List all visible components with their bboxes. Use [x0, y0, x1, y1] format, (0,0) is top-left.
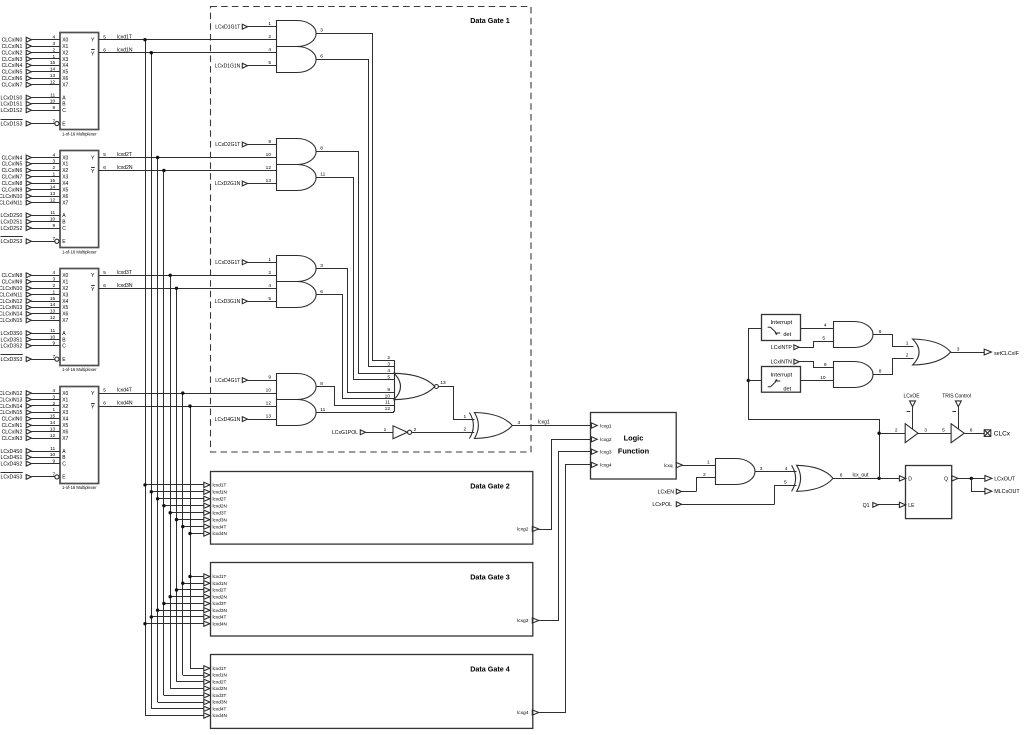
svg-text:9: 9 — [53, 105, 56, 111]
node lcxd2T junction at Data Gate 3 — [175, 588, 178, 591]
svg-text:det: det — [783, 332, 791, 338]
svg-text:lcxd4N: lcxd4N — [213, 621, 227, 626]
node lcxd1T junction at Data Gate 3 — [188, 575, 191, 578]
wire to set CLCxIF — [951, 352, 985, 354]
svg-text:X2: X2 — [62, 168, 68, 174]
wire lcxd1T from U1 Y to AND gate — [99, 39, 276, 41]
svg-text:CLCxIN2: CLCxIN2 — [2, 50, 23, 56]
node lcxd1N tap — [150, 51, 153, 54]
svg-text:X4: X4 — [62, 299, 68, 305]
AND gate (output enable) — [716, 459, 756, 485]
svg-text:6: 6 — [320, 54, 323, 60]
node lcxd3T tap — [169, 274, 172, 277]
svg-text:LCxD3S0: LCxD3S0 — [0, 331, 22, 337]
wire lcxd2T into Data Gate 4 — [177, 681, 204, 683]
svg-text:5: 5 — [784, 480, 787, 486]
svg-text:14: 14 — [50, 302, 56, 308]
svg-text:4: 4 — [268, 283, 271, 289]
svg-text:3: 3 — [320, 28, 323, 34]
wire AND pair 3 complement output to OR input — [316, 295, 395, 399]
svg-text:X4: X4 — [62, 417, 68, 423]
svg-text:4: 4 — [387, 368, 390, 374]
wire TRIS buffer to CLCx pin — [964, 433, 984, 435]
svg-text:CLCxIN15: CLCxIN15 — [0, 318, 22, 324]
wire lcxd4N from U4 Ybar to AND gate — [99, 406, 276, 408]
node lcxd1N junction at Data Gate 2 — [150, 490, 153, 493]
Interrupt det block (falling edge) — [762, 367, 801, 393]
svg-text:Interrupt: Interrupt — [771, 372, 793, 378]
node lcxd1T junction at Data Gate 2 — [143, 483, 146, 486]
svg-text:CLCxIN5: CLCxIN5 — [2, 70, 23, 76]
wire lcxg1 to Logic Function — [512, 425, 590, 427]
wire falling Interrupt det to AND — [801, 380, 834, 382]
svg-text:Y: Y — [91, 391, 95, 397]
svg-text:4: 4 — [824, 322, 827, 328]
svg-text:12: 12 — [266, 401, 272, 407]
svg-text:2: 2 — [906, 352, 909, 358]
svg-text:11: 11 — [50, 210, 55, 216]
svg-text:CLCxIN10: CLCxIN10 — [0, 286, 22, 292]
svg-text:lcxd3N: lcxd3N — [213, 517, 227, 522]
svg-text:lcxd3N: lcxd3N — [117, 283, 133, 289]
svg-text:10: 10 — [385, 393, 391, 399]
svg-text:lcxg4: lcxg4 — [517, 710, 529, 716]
svg-text:lcxd1T: lcxd1T — [213, 483, 227, 488]
wire lcxd4T into Data Gate 3 — [151, 616, 204, 618]
svg-text:8: 8 — [320, 145, 323, 151]
svg-text:4: 4 — [53, 388, 56, 394]
svg-text:11: 11 — [50, 446, 55, 452]
svg-text:11: 11 — [385, 400, 390, 406]
svg-text:Y: Y — [91, 155, 95, 161]
wire lcxd1N into Data Gate 4 — [183, 675, 204, 677]
svg-text:6: 6 — [103, 401, 106, 407]
svg-text:lcxd3T: lcxd3T — [213, 601, 227, 606]
svg-text:13: 13 — [50, 191, 56, 197]
wire rising AND to OR — [874, 335, 914, 347]
svg-text:LCxD1S0: LCxD1S0 — [0, 95, 22, 101]
svg-text:4: 4 — [268, 47, 271, 53]
svg-text:13: 13 — [440, 380, 446, 386]
svg-text:lcxg3: lcxg3 — [517, 618, 529, 624]
node buffer tap — [877, 432, 880, 435]
svg-text:1: 1 — [53, 289, 56, 295]
wire lcx_out to output buffer — [879, 433, 905, 435]
svg-text:lcxg3: lcxg3 — [600, 450, 612, 456]
multiplexer U2 (1-of-16 Multiplexer) — [0, 151, 106, 255]
svg-text:X3: X3 — [62, 292, 68, 298]
buffer (TRIS Control) — [951, 424, 964, 443]
svg-text:CLCxIN13: CLCxIN13 — [0, 305, 22, 311]
svg-text:X0: X0 — [62, 155, 68, 161]
svg-text:lcxd1T: lcxd1T — [117, 34, 132, 40]
node lcxd4N junction at Data Gate 3 — [143, 622, 146, 625]
wire lcxd2T vertical bus — [157, 158, 159, 703]
svg-text:6: 6 — [970, 427, 973, 433]
svg-text:10: 10 — [266, 152, 272, 158]
svg-text:3: 3 — [924, 427, 927, 433]
svg-text:9: 9 — [53, 458, 56, 464]
svg-text:lcxd1T: lcxd1T — [213, 574, 227, 579]
svg-text:LCxD3S3: LCxD3S3 — [0, 357, 22, 363]
svg-text:X2: X2 — [62, 286, 68, 292]
svg-text:2: 2 — [53, 47, 56, 53]
svg-text:CLCxIN10: CLCxIN10 — [0, 194, 22, 200]
svg-text:lcxd3T: lcxd3T — [117, 270, 132, 276]
wire Q to MLCxOUT — [972, 479, 985, 492]
svg-text:X7: X7 — [62, 318, 68, 324]
svg-text:LCxD4G1T: LCxD4G1T — [215, 378, 240, 384]
svg-text:lcxd4T: lcxd4T — [117, 388, 132, 394]
svg-text:3: 3 — [387, 362, 390, 368]
svg-text:C: C — [62, 108, 66, 114]
svg-text:CLCxIN14: CLCxIN14 — [0, 312, 22, 318]
svg-text:CLCxIN11: CLCxIN11 — [0, 292, 22, 298]
wire AND pair 4 complement output to OR input — [316, 412, 395, 413]
Interrupt det block (rising edge) — [762, 315, 801, 341]
multiplexer U1 (1-of-16 Multiplexer) — [0, 33, 106, 137]
svg-text:1: 1 — [464, 414, 467, 420]
svg-text:Y: Y — [91, 38, 95, 44]
svg-text:Data Gate 4: Data Gate 4 — [470, 665, 510, 674]
wire lcxd2N from U2 Ybar to AND gate — [99, 170, 276, 172]
svg-text:CLCxIN9: CLCxIN9 — [2, 280, 23, 286]
svg-text:LCxD3S1: LCxD3S1 — [0, 337, 22, 343]
inverter on LCxG1POL — [393, 426, 407, 439]
svg-text:lcxg4: lcxg4 — [600, 463, 612, 469]
svg-text:lcxd3N: lcxd3N — [213, 700, 227, 705]
svg-text:1: 1 — [384, 427, 387, 433]
svg-text:5: 5 — [822, 335, 825, 341]
svg-text:X3: X3 — [62, 57, 68, 63]
svg-text:LCxD3S2: LCxD3S2 — [0, 344, 22, 350]
svg-text:CLCxIN0: CLCxIN0 — [2, 417, 23, 423]
svg-text:CLCxIN0: CLCxIN0 — [2, 38, 23, 44]
Data Gate 3 box — [204, 563, 539, 637]
node lcxd3N tap — [175, 287, 178, 290]
node lcxd4T tap — [181, 391, 184, 394]
wire lcxd4T vertical bus — [182, 393, 184, 675]
wire lcxd3N into Data Gate 4 — [158, 702, 204, 704]
wire lcxd3N vertical bus — [176, 288, 178, 681]
svg-text:13: 13 — [50, 73, 56, 79]
svg-text:lcxd2T: lcxd2T — [213, 497, 227, 502]
svg-text:LCxD2S3: LCxD2S3 — [0, 239, 22, 245]
wire lcxd1T into Data Gate 2 — [145, 484, 204, 486]
svg-text:CLCxIN2: CLCxIN2 — [2, 430, 23, 436]
svg-text:Data Gate 1: Data Gate 1 — [470, 16, 510, 25]
svg-text:Y: Y — [91, 51, 95, 57]
svg-text:X7: X7 — [62, 436, 68, 442]
svg-text:13: 13 — [266, 414, 272, 420]
node lcxd2T junction at Data Gate 2 — [156, 497, 159, 500]
svg-text:LCxOUT: LCxOUT — [994, 476, 1016, 482]
wire lcxd4N vertical bus — [190, 406, 192, 668]
svg-text:CLCxIN3: CLCxIN3 — [2, 57, 23, 63]
Data Gate 1 dashed boundary box — [211, 7, 532, 453]
svg-text:11: 11 — [50, 92, 55, 98]
svg-text:MLCxOUT: MLCxOUT — [994, 489, 1020, 495]
svg-text:X1: X1 — [62, 397, 68, 403]
wire lcxq to AND gate — [683, 465, 716, 467]
svg-text:2: 2 — [53, 165, 56, 171]
svg-text:LCxD1G1T: LCxD1G1T — [215, 24, 240, 30]
wire lcxd1N from U1 Ybar to AND gate — [99, 52, 276, 54]
svg-text:LCxD2G1N: LCxD2G1N — [215, 181, 241, 187]
svg-text:lcxg2: lcxg2 — [517, 527, 529, 533]
node lcxd2T tap — [156, 156, 159, 159]
svg-text:1-of-16 Multiplexer: 1-of-16 Multiplexer — [62, 132, 97, 137]
svg-text:Logic: Logic — [624, 434, 644, 443]
node lcxd2N junction at Data Gate 2 — [162, 504, 165, 507]
svg-text:CLCxIN12: CLCxIN12 — [0, 391, 22, 397]
wire lcxd3N into Data Gate 3 — [158, 610, 204, 612]
svg-text:X5: X5 — [62, 70, 68, 76]
wire lcxd3T vertical bus — [170, 275, 172, 688]
svg-text:CLCxIN14: CLCxIN14 — [0, 404, 22, 410]
node lcxd3T junction at Data Gate 2 — [169, 511, 172, 514]
wire LCxEN to AND gate — [697, 478, 716, 492]
wire LCxPOL to XOR — [775, 486, 797, 505]
svg-text:det: det — [783, 386, 791, 392]
wire AND pair 2 true output to OR input — [316, 152, 395, 374]
svg-text:CLCxIN1: CLCxIN1 — [2, 423, 23, 429]
svg-text:X1: X1 — [62, 44, 68, 50]
svg-text:12: 12 — [266, 165, 272, 171]
svg-text:lcxd2N: lcxd2N — [117, 165, 133, 171]
wire lcxd2N into Data Gate 2 — [164, 505, 204, 507]
wire lcxg4 to Logic Function — [539, 465, 591, 713]
buffer (LCxOE) — [905, 424, 918, 443]
wire lcxd4T into Data Gate 4 — [151, 708, 204, 710]
wire AND pair 2 complement output to OR input — [316, 178, 395, 380]
svg-text:4: 4 — [785, 466, 788, 472]
wire lcxd2N into Data Gate 3 — [170, 596, 204, 598]
svg-text:X3: X3 — [62, 175, 68, 181]
svg-text:3: 3 — [53, 159, 56, 165]
svg-text:LCxG1POL: LCxG1POL — [332, 430, 358, 436]
svg-text:LCxD3G1N: LCxD3G1N — [215, 299, 241, 305]
svg-text:12: 12 — [50, 80, 56, 86]
Logic Function block — [591, 413, 683, 480]
svg-text:X0: X0 — [62, 273, 68, 279]
wire to falling Interrupt det — [748, 380, 762, 382]
svg-text:D: D — [908, 476, 912, 482]
svg-text:2: 2 — [414, 427, 417, 433]
wire lcxd1T vertical bus — [145, 40, 147, 716]
svg-text:1-of-16 Multiplexer: 1-of-16 Multiplexer — [62, 485, 97, 490]
svg-text:lcxd4N: lcxd4N — [213, 531, 227, 536]
svg-text:5: 5 — [387, 374, 390, 380]
svg-text:5: 5 — [942, 427, 945, 433]
svg-text:C: C — [62, 461, 66, 467]
node lcxd4T junction at Data Gate 2 — [181, 525, 184, 528]
svg-text:1-of-16 Multiplexer: 1-of-16 Multiplexer — [62, 249, 97, 254]
wire lcxd4T into Data Gate 2 — [183, 526, 204, 528]
wire lcxd4T from U4 Y to AND gate — [99, 393, 276, 395]
AND gate pair 1 (data gating for lcxd1) — [268, 21, 323, 73]
AND gate pair 4 (data gating for lcxd4) — [266, 374, 326, 426]
wire lcx_out feedback to interrupt detectors — [749, 329, 880, 479]
svg-text:5: 5 — [103, 388, 106, 394]
svg-text:CLCxIN6: CLCxIN6 — [2, 76, 23, 82]
wire lcxd1T into Data Gate 4 — [190, 668, 204, 670]
svg-text:CLCx: CLCx — [994, 431, 1011, 438]
svg-text:X1: X1 — [62, 280, 68, 286]
svg-text:LE: LE — [908, 503, 915, 509]
svg-text:LCxD4S3: LCxD4S3 — [0, 475, 22, 481]
svg-text:Function: Function — [618, 447, 650, 456]
wire lcxd2N into Data Gate 4 — [170, 688, 204, 690]
wire lcxd2T into Data Gate 2 — [158, 498, 204, 500]
svg-text:12: 12 — [50, 197, 56, 203]
wire falling AND to OR — [874, 359, 914, 375]
svg-text:CLCxIN4: CLCxIN4 — [2, 63, 23, 69]
node lcxd4N tap — [188, 404, 191, 407]
wire buffer to TRIS buffer — [918, 433, 951, 435]
wire lcxd1N into Data Gate 2 — [151, 491, 204, 493]
svg-text:X2: X2 — [62, 50, 68, 56]
node lcxd2N junction at Data Gate 3 — [169, 595, 172, 598]
svg-text:13: 13 — [50, 309, 56, 315]
wire AND output to XOR — [755, 471, 796, 473]
node lcxd1N junction at Data Gate 3 — [181, 582, 184, 585]
svg-text:14: 14 — [50, 67, 56, 73]
svg-text:CLCxIN6: CLCxIN6 — [2, 168, 23, 174]
svg-text:lcxd2N: lcxd2N — [213, 686, 227, 691]
svg-text:10: 10 — [266, 388, 272, 394]
svg-text:LCxD2S2: LCxD2S2 — [0, 226, 22, 232]
svg-text:1: 1 — [53, 172, 56, 178]
svg-text:lcxd2N: lcxd2N — [213, 594, 227, 599]
svg-text:LCxD2S1: LCxD2S1 — [0, 220, 22, 226]
wire lcxg3 to Logic Function — [539, 452, 591, 621]
svg-text:10: 10 — [50, 99, 56, 105]
svg-text:X3: X3 — [62, 410, 68, 416]
svg-text:X2: X2 — [62, 404, 68, 410]
svg-text:X5: X5 — [62, 423, 68, 429]
svg-text:X0: X0 — [62, 391, 68, 397]
wire AND pair 3 true output to OR input — [316, 269, 395, 393]
svg-text:LCxD1G1N: LCxD1G1N — [215, 63, 241, 69]
svg-text:2: 2 — [895, 427, 898, 433]
svg-text:CLCxIN11: CLCxIN11 — [0, 200, 22, 206]
svg-text:lcxd2N: lcxd2N — [213, 503, 227, 508]
svg-text:setCLCxIF: setCLCxIF — [994, 351, 1020, 357]
svg-text:1: 1 — [53, 54, 56, 60]
svg-text:8: 8 — [879, 368, 882, 374]
svg-text:1: 1 — [268, 257, 271, 263]
svg-text:9: 9 — [53, 223, 56, 229]
OR gate (8-input NOR) in Data Gate 1 — [385, 355, 446, 412]
wire lcxg2 to Logic Function — [539, 440, 591, 530]
svg-text:3: 3 — [53, 394, 56, 400]
svg-text:Y: Y — [91, 169, 95, 175]
svg-text:10: 10 — [820, 375, 826, 381]
svg-text:9: 9 — [53, 341, 56, 347]
svg-text:CLCxIN12: CLCxIN12 — [0, 299, 22, 305]
svg-text:lcxd3N: lcxd3N — [213, 608, 227, 613]
svg-text:Interrupt: Interrupt — [771, 320, 793, 326]
svg-text:lcxd4T: lcxd4T — [213, 524, 227, 529]
svg-text:X6: X6 — [62, 194, 68, 200]
wire lcxd3T into Data Gate 2 — [170, 512, 204, 514]
wire lcxd4N into Data Gate 2 — [190, 533, 204, 535]
svg-text:CLCxIN9: CLCxIN9 — [2, 188, 23, 194]
svg-text:lcxd2T: lcxd2T — [213, 588, 227, 593]
svg-text:lcxd4T: lcxd4T — [213, 707, 227, 712]
svg-text:X4: X4 — [62, 181, 68, 187]
output MLCxOUT — [985, 488, 992, 494]
svg-text:lcxd4N: lcxd4N — [213, 713, 227, 718]
svg-text:15: 15 — [50, 60, 56, 66]
svg-text:CLCxIN15: CLCxIN15 — [0, 410, 22, 416]
wire inverter output to XOR — [412, 432, 475, 434]
node lcxd3T junction at Data Gate 3 — [162, 602, 165, 605]
wire lcxd4N into Data Gate 4 — [145, 715, 204, 717]
svg-text:15: 15 — [50, 178, 56, 184]
svg-text:lcxd1T: lcxd1T — [213, 666, 227, 671]
svg-text:Y: Y — [91, 287, 95, 293]
svg-text:LCxD4S1: LCxD4S1 — [0, 455, 22, 461]
Data Gate 4 box — [204, 655, 539, 729]
XOR gate (output polarity) — [797, 465, 833, 491]
svg-text:2: 2 — [703, 472, 706, 478]
svg-text:1-of-16 Multiplexer: 1-of-16 Multiplexer — [62, 367, 97, 372]
svg-text:11: 11 — [320, 171, 325, 177]
wire LCxINTN to AND — [814, 362, 834, 368]
svg-text:1: 1 — [53, 407, 56, 413]
wire AND pair 1 true output to OR input — [316, 34, 395, 361]
svg-text:lcxd4N: lcxd4N — [117, 401, 133, 407]
svg-text:LCxINTN: LCxINTN — [771, 359, 793, 365]
svg-text:2: 2 — [464, 427, 467, 433]
wire lcxd3N into Data Gate 2 — [177, 519, 204, 521]
node interrupt feed junction — [747, 379, 750, 382]
AND gate pair 3 (data gating for lcxd3) — [268, 256, 323, 308]
svg-text:Q1: Q1 — [863, 503, 870, 509]
svg-text:11: 11 — [50, 328, 55, 334]
svg-text:lcxd2T: lcxd2T — [213, 680, 227, 685]
svg-text:CLCxIN4: CLCxIN4 — [2, 155, 23, 161]
svg-text:LCxEN: LCxEN — [658, 489, 675, 495]
svg-text:12: 12 — [50, 315, 56, 321]
wire LCxINTP to AND — [814, 342, 834, 348]
wire lcxd3T from U3 Y to AND gate — [99, 275, 276, 277]
svg-text:2: 2 — [53, 283, 56, 289]
D latch — [899, 466, 958, 519]
svg-text:CLCxIN7: CLCxIN7 — [2, 83, 23, 89]
svg-text:3: 3 — [957, 346, 960, 352]
svg-text:4: 4 — [53, 270, 56, 276]
svg-text:LCxD4G1N: LCxD4G1N — [215, 417, 241, 423]
AND gate (falling interrupt) — [834, 362, 874, 388]
AND gate pair 2 (data gating for lcxd2) — [266, 139, 326, 191]
node lcxd1T tap — [143, 38, 146, 41]
svg-text:lcxd3T: lcxd3T — [213, 693, 227, 698]
svg-text:Y: Y — [91, 405, 95, 411]
svg-text:X1: X1 — [62, 162, 68, 168]
svg-text:9: 9 — [387, 387, 390, 393]
svg-text:CLCxIN1: CLCxIN1 — [2, 44, 23, 50]
svg-text:LCxPOL: LCxPOL — [652, 502, 672, 508]
svg-text:lcxd2T: lcxd2T — [117, 152, 132, 158]
output set CLCxIF — [984, 349, 991, 355]
svg-text:TRIS Control: TRIS Control — [942, 394, 971, 400]
svg-text:15: 15 — [50, 414, 56, 420]
svg-text:Y: Y — [91, 273, 95, 279]
wire Q to LCxOUT — [958, 478, 985, 480]
